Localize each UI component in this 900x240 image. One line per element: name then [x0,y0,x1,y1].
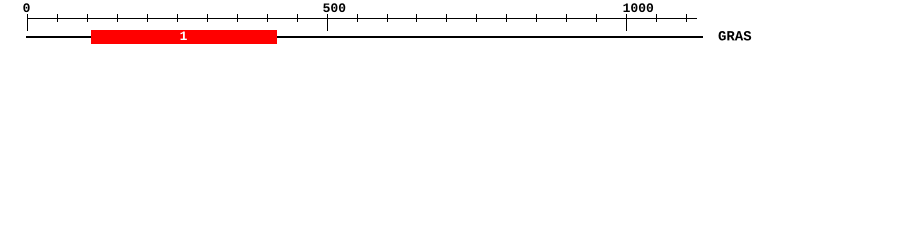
track label GRAS [719,31,752,41]
minor tick at 650 [416,14,417,22]
ruler axis line [27,18,697,19]
minor tick at 150 [117,14,118,22]
minor tick at 1100 [686,14,687,22]
domain box 1 (red) [91,30,277,44]
major tick at 500 [327,14,328,31]
ruler label 0 [23,3,29,12]
minor tick at 800 [506,14,507,22]
minor tick at 700 [446,14,447,22]
ruler label 1000 [623,3,653,12]
minor tick at 450 [297,14,298,22]
minor tick at 50 [57,14,58,22]
minor tick at 1050 [656,14,657,22]
minor tick at 100 [87,14,88,22]
minor tick at 300 [207,14,208,22]
major tick at 0 [27,14,28,31]
minor tick at 600 [387,14,388,22]
minor tick at 350 [237,14,238,22]
ruler label 500 [323,3,345,12]
major tick at 1000 [626,14,627,31]
minor tick at 900 [566,14,567,22]
minor tick at 400 [267,14,268,22]
minor tick at 550 [357,14,358,22]
minor tick at 200 [147,14,148,22]
sequence line [26,36,703,38]
minor tick at 250 [177,14,178,22]
domain label 1 [180,31,186,40]
minor tick at 750 [476,14,477,22]
minor tick at 950 [596,14,597,22]
minor tick at 850 [536,14,537,22]
